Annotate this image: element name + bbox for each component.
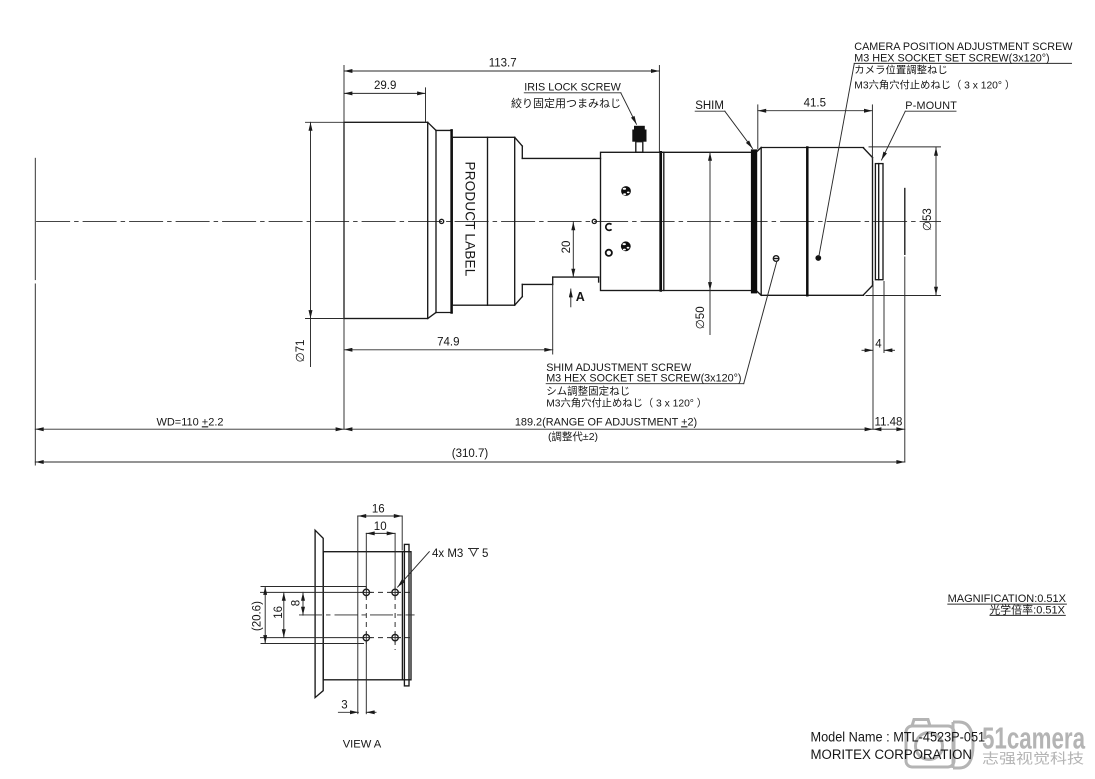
iris section (601, 152, 661, 290)
dimension 41.5 (758, 98, 873, 160)
svg-text:Model Name : MTL-4523P-051: Model Name : MTL-4523P-051 (811, 729, 986, 745)
svg-text:M3六角穴付止めねじ（ 3 x 120° ）: M3六角穴付止めねじ（ 3 x 120° ） (546, 396, 707, 409)
P-mount ring (875, 164, 883, 280)
label IRIS LOCK SCREW (511, 82, 637, 125)
VIEW A centerline (299, 614, 415, 616)
svg-text:M3六角穴付止めねじ（ 3 x 120° ）: M3六角穴付止めねじ（ 3 x 120° ） (854, 78, 1015, 91)
svg-text:光学倍率:0.51X: 光学倍率:0.51X (989, 602, 1065, 616)
svg-text:113.7: 113.7 (489, 58, 517, 70)
svg-text:VIEW A: VIEW A (343, 739, 382, 751)
extension line flange face (872, 282, 874, 430)
object plane line (34, 158, 36, 279)
VIEW A body (323, 552, 411, 680)
centerline (36, 220, 941, 222)
svg-text:4x M3: 4x M3 (432, 548, 463, 560)
shim adjustment screw dot (773, 256, 779, 262)
label MAGNIFICATION (948, 593, 1067, 616)
svg-text:5: 5 (482, 548, 488, 560)
svg-text:志强视觉科技: 志强视觉科技 (982, 751, 1084, 767)
dimension 20.6 left (252, 587, 266, 644)
svg-text:10: 10 (374, 521, 387, 533)
extension line 113.7 right (658, 66, 660, 152)
dimension 8 left (291, 592, 304, 615)
dimension 29.9 (344, 80, 426, 93)
VIEW A mount plate (404, 544, 409, 686)
svg-text:MORITEX CORPORATION: MORITEX CORPORATION (811, 747, 973, 763)
camera position screw dot (815, 255, 821, 261)
node center mark 1 (440, 219, 444, 223)
M3 hole bottom-right (390, 633, 400, 643)
dimension O53 (866, 147, 941, 296)
watermark camera icon (906, 720, 973, 769)
dimension WD (35, 416, 344, 429)
svg-text:29.9: 29.9 (374, 80, 396, 92)
dimension 4 (862, 339, 895, 351)
VIEW A hole row top (261, 591, 412, 593)
VIEW A flat face line (357, 516, 359, 714)
svg-text:11.48: 11.48 (875, 417, 903, 429)
iris set screw top (621, 186, 631, 196)
svg-text:WD=110 +2.2: WD=110 +2.2 (156, 416, 223, 428)
VIEW A hole column right (394, 533, 396, 650)
VIEW A hole column left (365, 533, 367, 713)
dimension 16 left (273, 592, 285, 637)
dimension 20 (561, 222, 573, 277)
svg-text:PRODUCT LABEL: PRODUCT LABEL (463, 162, 478, 277)
svg-text:4: 4 (875, 339, 882, 351)
dimension 10 top (366, 521, 395, 534)
M3 hole top-right (390, 587, 400, 597)
view arrow A (571, 289, 585, 307)
O mark (606, 250, 612, 256)
extension line mount right (883, 282, 885, 353)
dimension 16 top (358, 503, 402, 550)
svg-text:M3 HEX SOCKET SET SCREW(3x120°: M3 HEX SOCKET SET SCREW(3x120°) (546, 373, 741, 385)
svg-text:CAMERA POSITION ADJUSTMENT SCR: CAMERA POSITION ADJUSTMENT SCREW (854, 41, 1073, 53)
svg-text:(310.7): (310.7) (452, 448, 489, 460)
rear barrel O53 (757, 148, 872, 296)
dimension 113.7 (344, 58, 659, 71)
svg-text:∅71: ∅71 (295, 340, 307, 363)
label P-MOUNT (882, 100, 958, 160)
extension line image plane (904, 257, 906, 462)
lip ring (436, 130, 452, 312)
svg-text:189.2(RANGE OF ADJUSTMENT +2): 189.2(RANGE OF ADJUSTMENT +2) (515, 416, 697, 428)
svg-text:MAGNIFICATION:0.51X: MAGNIFICATION:0.51X (948, 593, 1067, 605)
svg-text:74.9: 74.9 (437, 337, 459, 349)
extension line 74.9 right (552, 284, 554, 354)
dimension 74.9 (344, 337, 553, 350)
label 4x M3 (398, 548, 489, 587)
label SHIM (695, 100, 752, 148)
svg-text:16: 16 (372, 503, 385, 515)
svg-text:20: 20 (561, 241, 573, 254)
label SHIM ADJUSTMENT SCREW (546, 261, 777, 409)
dimension O50 (695, 152, 710, 334)
svg-text:(調整代±2): (調整代±2) (548, 430, 598, 443)
front barrel O71 (344, 122, 436, 318)
M3 hole bottom-left (361, 633, 371, 643)
svg-text:P-MOUNT: P-MOUNT (905, 100, 957, 112)
extension line front face (343, 66, 345, 430)
svg-text:IRIS LOCK SCREW: IRIS LOCK SCREW (524, 82, 621, 94)
svg-text:SHIM: SHIM (695, 100, 724, 112)
image plane line (904, 189, 906, 255)
node center mark 2 (592, 219, 596, 223)
M3 hole top-left (361, 587, 371, 597)
mid section (661, 152, 751, 290)
C mark (606, 224, 612, 231)
svg-text:41.5: 41.5 (804, 98, 826, 110)
dimension 189.2 (344, 416, 873, 443)
svg-text:M3 HEX SOCKET SET SCREW(3x120°: M3 HEX SOCKET SET SCREW(3x120°) (854, 52, 1049, 64)
label CAMERA POSITION ADJUSTMENT SCREW (819, 41, 1073, 256)
dimension 11.48 (873, 417, 905, 430)
iris lock screw (632, 126, 646, 153)
svg-text:16: 16 (273, 606, 285, 619)
middle tube (522, 158, 600, 284)
shim band (751, 149, 757, 293)
svg-text:シム調整固定ねじ: シム調整固定ねじ (546, 385, 630, 398)
VIEW A hole row bottom (261, 637, 412, 639)
svg-text:カメラ位置調整ねじ: カメラ位置調整ねじ (854, 63, 948, 76)
dimension 310.7 (35, 448, 905, 462)
svg-text:∅50: ∅50 (695, 306, 707, 329)
VIEW A flat ext lines 20.6 (261, 587, 366, 644)
svg-text:3: 3 (341, 700, 347, 712)
dimension O71 (295, 122, 343, 366)
iris set screw bottom (621, 241, 631, 251)
svg-text:(20.6): (20.6) (252, 601, 264, 631)
extension line 29.9 right (425, 88, 427, 122)
dimension 3 bottom (338, 700, 376, 713)
svg-text:∅53: ∅53 (922, 208, 934, 231)
svg-text:8: 8 (291, 600, 303, 606)
VIEW A flange edge trapezoid (315, 530, 323, 697)
svg-text:絞り固定用つまみねじ: 絞り固定用つまみねじ (511, 96, 621, 110)
product label section (452, 137, 522, 305)
svg-text:A: A (576, 290, 585, 304)
